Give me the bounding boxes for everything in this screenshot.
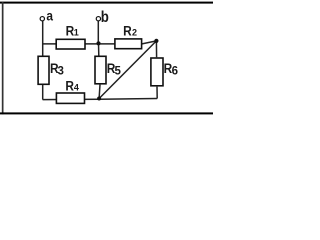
svg-text:R: R — [123, 22, 132, 38]
svg-text:5: 5 — [115, 66, 122, 78]
svg-text:a: a — [46, 7, 53, 23]
svg-text:6: 6 — [172, 66, 178, 78]
svg-text:4: 4 — [74, 83, 79, 93]
svg-text:2: 2 — [132, 28, 137, 38]
svg-text:1: 1 — [74, 28, 79, 38]
svg-text:b: b — [101, 9, 109, 26]
svg-text:3: 3 — [58, 66, 64, 78]
